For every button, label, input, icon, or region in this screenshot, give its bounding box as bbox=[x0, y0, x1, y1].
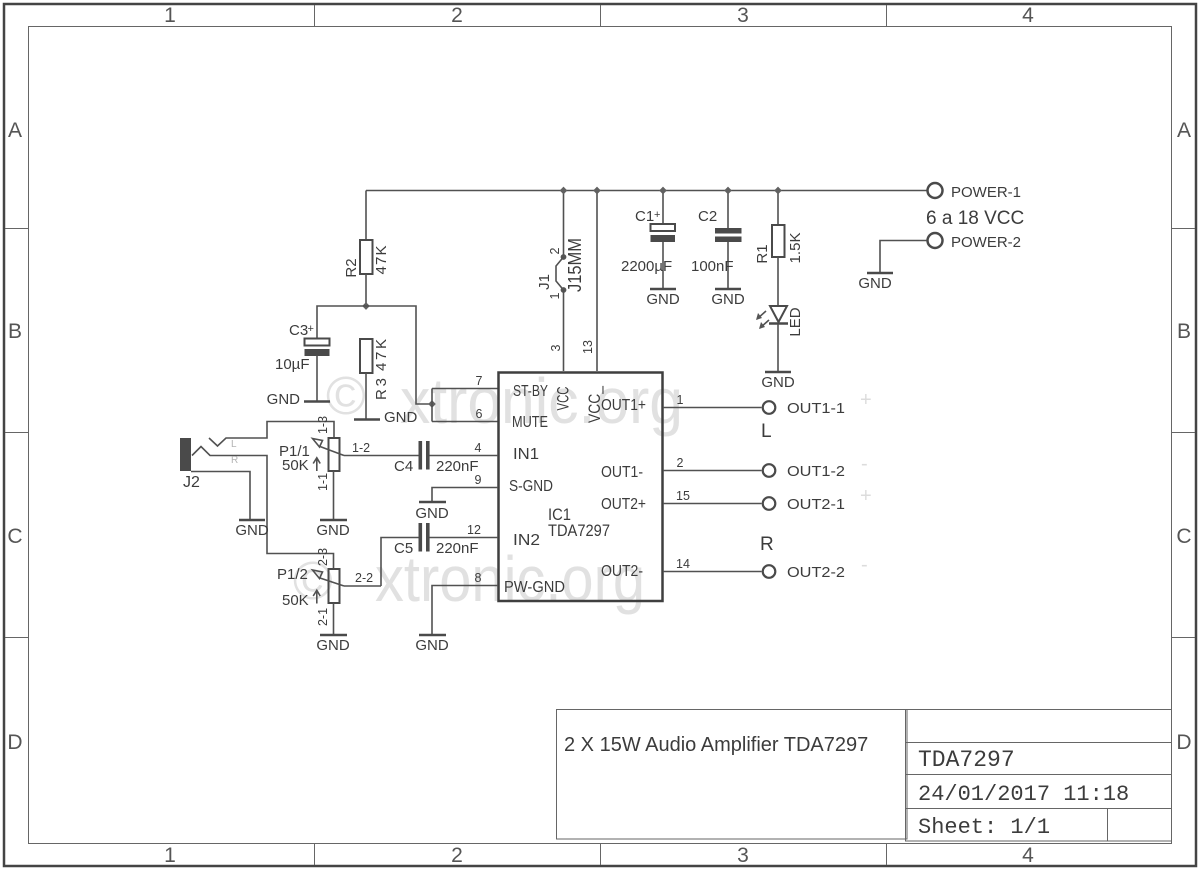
svg-text:4: 4 bbox=[1022, 4, 1034, 27]
connector POWER-1 bbox=[928, 183, 1022, 201]
wire: pin15 OUT2+ bbox=[663, 503, 762, 505]
svg-text:IN2: IN2 bbox=[513, 532, 540, 549]
wire: pin7 bbox=[432, 388, 498, 390]
connector POWER-2 bbox=[880, 233, 1021, 272]
svg-text:C2: C2 bbox=[698, 208, 717, 225]
svg-text:14: 14 bbox=[676, 557, 690, 571]
svg-text:R2: R2 bbox=[343, 258, 360, 277]
wire: rail down to R2 bbox=[365, 191, 367, 241]
svg-text:OUT2-: OUT2- bbox=[601, 563, 643, 580]
svg-text:2: 2 bbox=[677, 456, 684, 470]
svg-text:POWER-1: POWER-1 bbox=[951, 184, 1021, 201]
svg-text:7: 7 bbox=[476, 374, 483, 388]
svg-text:6 a 18 VCC: 6 a 18 VCC bbox=[926, 208, 1024, 229]
svg-text:220nF: 220nF bbox=[436, 458, 479, 475]
svg-text:B: B bbox=[8, 320, 22, 343]
svg-text:R: R bbox=[760, 534, 774, 555]
svg-text:-: - bbox=[861, 554, 868, 576]
svg-text:D: D bbox=[7, 731, 22, 754]
ground (P1/1) bbox=[316, 520, 350, 539]
svg-text:+: + bbox=[860, 485, 872, 507]
svg-text:C: C bbox=[7, 525, 22, 548]
title text box bbox=[557, 710, 908, 840]
svg-text:POWER-2: POWER-2 bbox=[951, 234, 1021, 251]
svg-text:R1: R1 bbox=[754, 244, 771, 263]
potentiometer P1/1 bbox=[279, 416, 419, 519]
capacitor C4 bbox=[394, 441, 498, 475]
wire: pin14 OUT2- bbox=[663, 571, 762, 573]
svg-text:C: C bbox=[1176, 525, 1191, 548]
wire: junction to C3 bbox=[317, 306, 366, 338]
svg-text:10µF: 10µF bbox=[275, 356, 310, 373]
svg-text:R: R bbox=[231, 455, 238, 466]
wire: pin8 PW-GND bbox=[432, 586, 498, 635]
ground (R3) bbox=[354, 409, 418, 426]
svg-text:+: + bbox=[308, 323, 314, 335]
capacitor C2 bbox=[691, 191, 742, 289]
svg-text:1.5K: 1.5K bbox=[787, 233, 804, 264]
svg-text:1: 1 bbox=[164, 844, 176, 867]
svg-text:9: 9 bbox=[475, 473, 482, 487]
svg-text:B: B bbox=[1177, 320, 1191, 343]
svg-text:Sheet: 1/1: Sheet: 1/1 bbox=[918, 815, 1050, 840]
svg-text:GND: GND bbox=[711, 291, 745, 308]
svg-text:2 X 15W Audio Amplifier TDA729: 2 X 15W Audio Amplifier TDA7297 bbox=[564, 734, 868, 756]
svg-text:6: 6 bbox=[476, 407, 483, 421]
connector OUT1-1 bbox=[763, 400, 845, 417]
svg-text:IN1: IN1 bbox=[513, 446, 539, 463]
svg-text:OUT1-2: OUT1-2 bbox=[787, 463, 845, 480]
jumper J1 bbox=[536, 191, 585, 372]
ground (J2) bbox=[235, 520, 269, 539]
svg-text:3: 3 bbox=[549, 344, 563, 351]
watermark 2 bbox=[293, 543, 645, 615]
svg-text:1: 1 bbox=[677, 393, 684, 407]
svg-text:4: 4 bbox=[475, 441, 482, 455]
connector OUT2-1 bbox=[763, 496, 845, 513]
svg-text:47K: 47K bbox=[373, 339, 390, 371]
svg-text:GND: GND bbox=[646, 291, 680, 308]
svg-text:2: 2 bbox=[451, 4, 463, 27]
svg-text:1-2: 1-2 bbox=[352, 441, 370, 455]
resistor R1 bbox=[754, 191, 804, 307]
svg-text:PW-GND: PW-GND bbox=[504, 579, 565, 596]
node: rail/C1 bbox=[659, 187, 667, 195]
svg-text:100nF: 100nF bbox=[691, 258, 734, 275]
LED D1 bbox=[756, 306, 804, 371]
potentiometer P1/2 bbox=[277, 548, 381, 634]
svg-text:OUT2+: OUT2+ bbox=[601, 496, 646, 513]
svg-text:24/01/2017 11:18: 24/01/2017 11:18 bbox=[918, 782, 1129, 807]
svg-text:-: - bbox=[861, 453, 868, 475]
watermark 1 bbox=[326, 365, 683, 437]
svg-text:2: 2 bbox=[451, 844, 463, 867]
svg-text:LED: LED bbox=[787, 307, 804, 336]
node: rail/R1 bbox=[774, 187, 782, 195]
svg-text:C3: C3 bbox=[289, 322, 308, 339]
ground (PW-GND) bbox=[415, 635, 449, 654]
ground (C2) bbox=[711, 289, 745, 308]
capacitor C5 bbox=[381, 523, 498, 586]
title block bbox=[906, 710, 1172, 842]
svg-text:+: + bbox=[860, 389, 872, 411]
svg-text:©: © bbox=[326, 366, 366, 426]
svg-text:2200µF: 2200µF bbox=[621, 258, 672, 275]
IC U1 TDA7297 box bbox=[499, 373, 663, 602]
svg-text:8: 8 bbox=[475, 571, 482, 585]
svg-text:GND: GND bbox=[267, 391, 301, 408]
svg-text:GND: GND bbox=[235, 522, 269, 539]
wire: junction branch bbox=[431, 389, 433, 422]
svg-text:12: 12 bbox=[467, 523, 481, 537]
svg-text:GND: GND bbox=[316, 637, 350, 654]
svg-text:OUT2-1: OUT2-1 bbox=[787, 496, 845, 513]
svg-text:GND: GND bbox=[316, 522, 350, 539]
svg-text:P1/2: P1/2 bbox=[277, 566, 308, 583]
resistor R3 bbox=[360, 339, 390, 419]
svg-text:ST-BY: ST-BY bbox=[513, 383, 548, 400]
svg-text:C1: C1 bbox=[635, 208, 654, 225]
connector J2 jack bbox=[180, 438, 250, 519]
svg-text:OUT1+: OUT1+ bbox=[601, 397, 646, 414]
svg-text:S-GND: S-GND bbox=[509, 478, 553, 495]
svg-text:VCC: VCC bbox=[554, 387, 573, 411]
wire: J2 R contact bbox=[192, 447, 334, 570]
svg-text:3: 3 bbox=[737, 4, 749, 27]
svg-text:1: 1 bbox=[548, 292, 562, 299]
svg-text:J15MM: J15MM bbox=[565, 238, 585, 292]
svg-text:GND: GND bbox=[858, 275, 892, 292]
svg-text:J1: J1 bbox=[536, 274, 553, 290]
svg-text:C5: C5 bbox=[394, 540, 413, 557]
svg-text:GND: GND bbox=[415, 505, 449, 522]
svg-text:A: A bbox=[1177, 119, 1191, 142]
ground (POWER-2) bbox=[858, 273, 893, 292]
svg-text:OUT1-: OUT1- bbox=[601, 464, 643, 481]
ground (S-GND) bbox=[415, 502, 449, 522]
node: rail/C2 bbox=[724, 187, 732, 195]
wire: power rail bbox=[366, 190, 927, 192]
svg-text:2: 2 bbox=[548, 247, 562, 254]
svg-text:15: 15 bbox=[676, 489, 690, 503]
svg-text:220nF: 220nF bbox=[436, 540, 479, 557]
wire: pin1 OUT1+ bbox=[663, 407, 762, 409]
connector OUT2-2 bbox=[763, 564, 845, 581]
svg-text:OUT2-2: OUT2-2 bbox=[787, 564, 845, 581]
node: rail/VCC13 bbox=[593, 187, 601, 195]
svg-text:2-3: 2-3 bbox=[316, 548, 330, 566]
connector OUT1-2 bbox=[763, 463, 845, 480]
svg-text:L: L bbox=[231, 439, 237, 450]
svg-text:J2: J2 bbox=[183, 474, 200, 491]
svg-text:2-1: 2-1 bbox=[316, 608, 330, 626]
wire: pin9 S-GND bbox=[432, 488, 498, 502]
wire: junction to ST-BY/MUTE bbox=[366, 306, 432, 404]
node: R2/R3 junction bbox=[362, 302, 370, 310]
svg-text:TDA7297: TDA7297 bbox=[548, 522, 610, 540]
svg-text:D: D bbox=[1176, 731, 1191, 754]
svg-text:1-3: 1-3 bbox=[316, 416, 330, 434]
svg-text:47K: 47K bbox=[373, 246, 390, 275]
wire: J2 L contact bbox=[209, 422, 334, 447]
svg-text:GND: GND bbox=[761, 374, 795, 391]
svg-text:13: 13 bbox=[581, 340, 595, 354]
svg-text:L: L bbox=[761, 421, 772, 442]
node: rail/J1 bbox=[560, 187, 568, 195]
ground (P1/2) bbox=[316, 635, 350, 654]
svg-text:50K: 50K bbox=[282, 457, 309, 474]
svg-text:OUT1-1: OUT1-1 bbox=[787, 400, 845, 417]
led arrows bbox=[757, 311, 766, 319]
wire: VCC pin13 bbox=[596, 191, 598, 372]
ground (C1) bbox=[646, 289, 680, 308]
svg-text:2-2: 2-2 bbox=[355, 571, 373, 585]
resistor R2 bbox=[343, 240, 390, 306]
ground (LED) bbox=[761, 372, 795, 391]
svg-text:+: + bbox=[654, 209, 660, 221]
wire: pin6 bbox=[432, 421, 498, 423]
svg-text:50K: 50K bbox=[282, 592, 309, 609]
svg-text:MUTE: MUTE bbox=[512, 414, 548, 431]
ground (C3) bbox=[267, 391, 330, 408]
svg-text:TDA7297: TDA7297 bbox=[918, 747, 1015, 773]
svg-text:4: 4 bbox=[1022, 844, 1034, 867]
node: ST-BY/MUTE junction bbox=[428, 400, 436, 408]
svg-text:3: 3 bbox=[737, 844, 749, 867]
wire: pin2 OUT1- bbox=[663, 470, 762, 472]
svg-text:C4: C4 bbox=[394, 458, 413, 475]
svg-text:A: A bbox=[8, 119, 22, 142]
capacitor C1 bbox=[621, 191, 675, 289]
svg-text:GND: GND bbox=[384, 409, 418, 426]
svg-text:1-1: 1-1 bbox=[316, 473, 330, 491]
capacitor C3 bbox=[275, 322, 330, 401]
svg-text:1: 1 bbox=[164, 4, 176, 27]
svg-text:GND: GND bbox=[415, 637, 449, 654]
